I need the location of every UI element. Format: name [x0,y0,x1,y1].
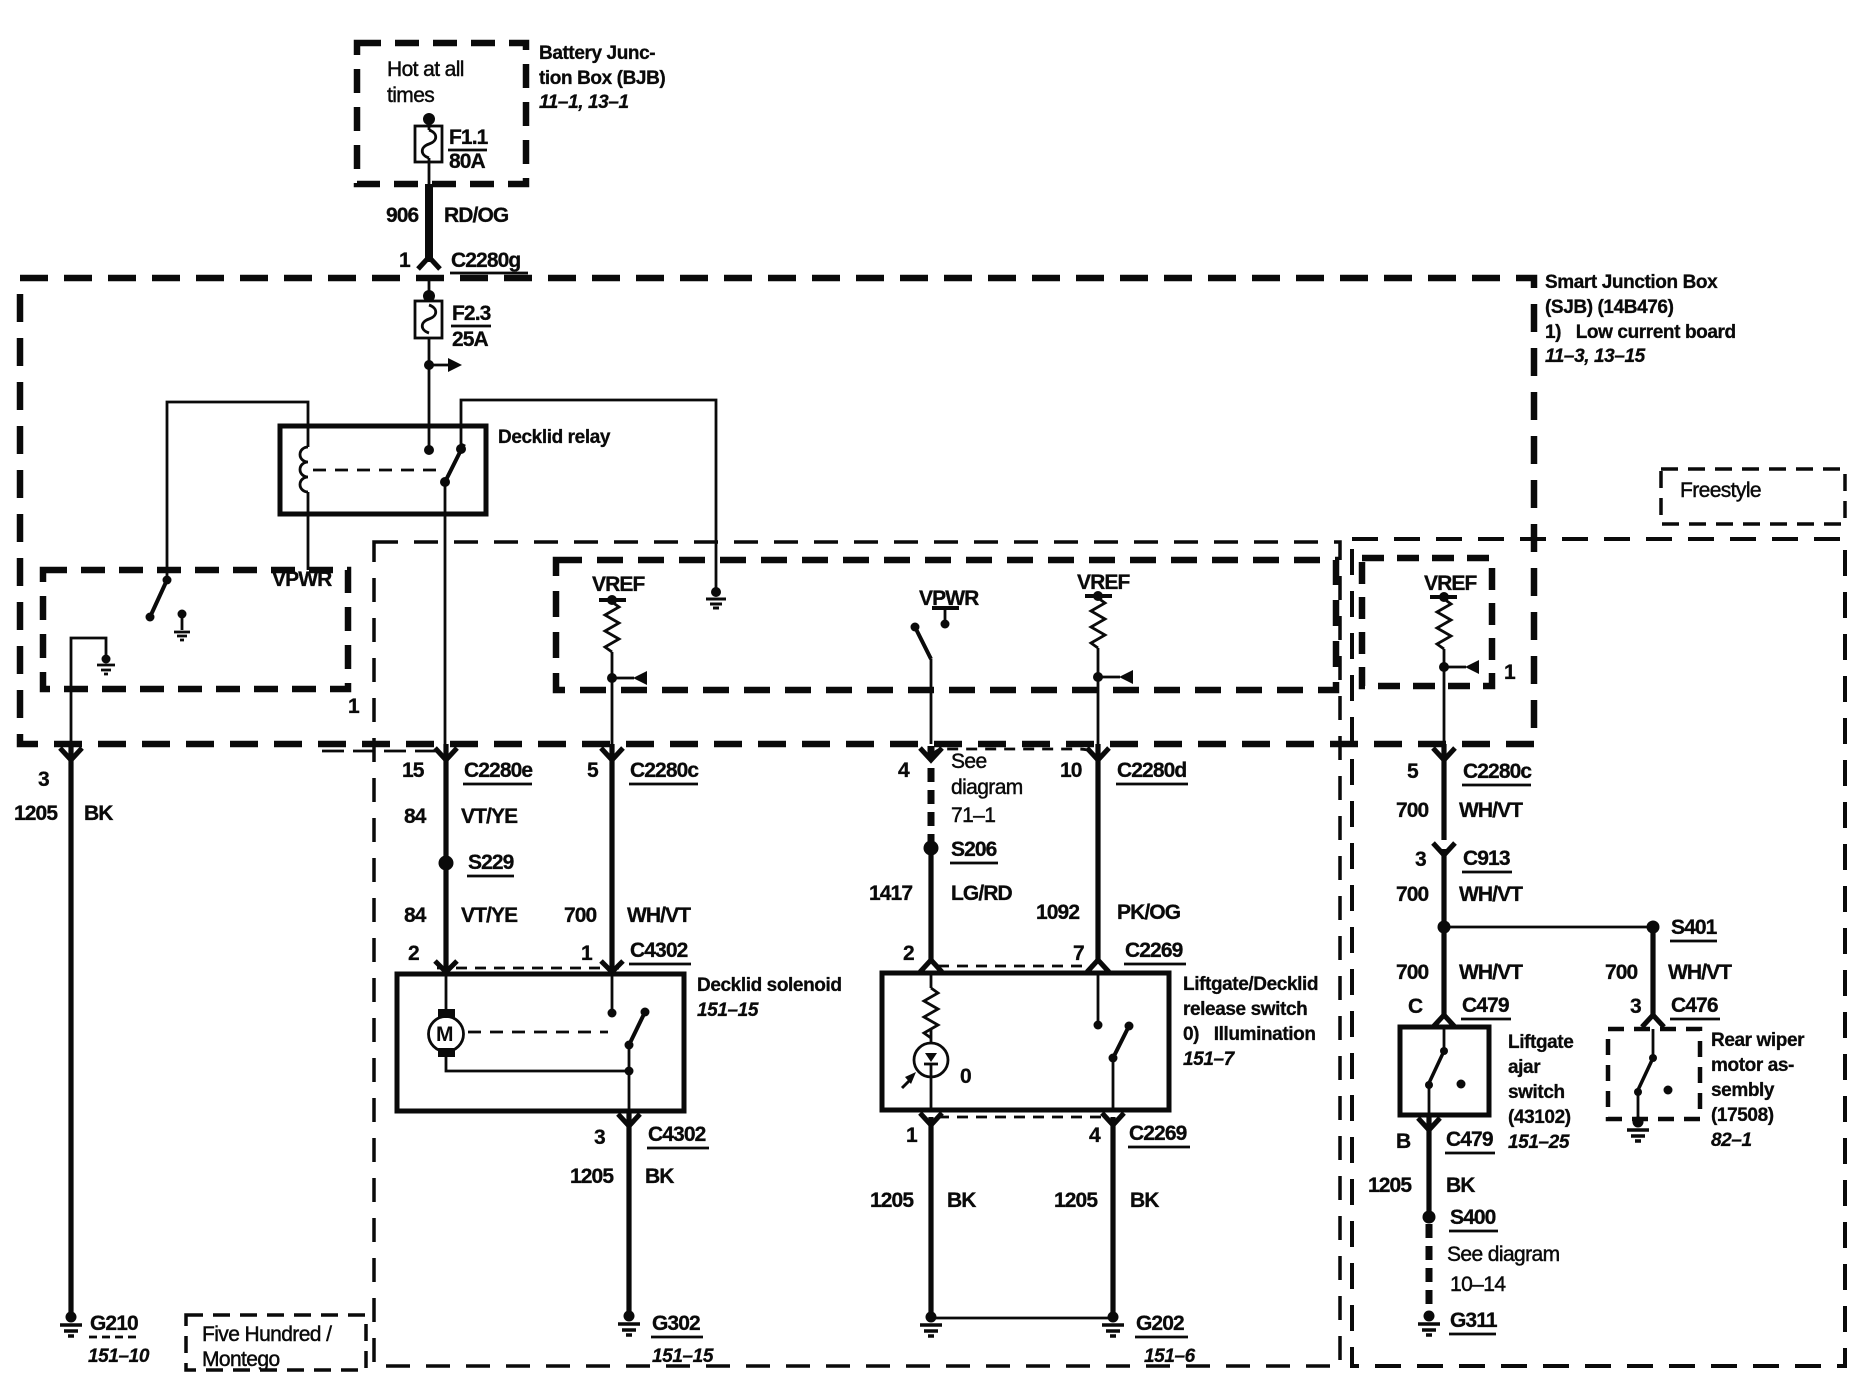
svg-text:700: 700 [1396,961,1429,984]
svg-text:151–7: 151–7 [1183,1049,1236,1070]
VPWR box (dashed enclosure, SJB internal) [43,570,348,689]
svg-text:2: 2 [408,942,419,965]
SJB internal circuits box (dashed enclosure with VREF/VPWR) [556,560,1336,690]
svg-text:5: 5 [1407,760,1419,783]
svg-text:15: 15 [402,759,425,782]
svg-text:F2.3: F2.3 [452,302,491,325]
svg-text:11–3, 13–15: 11–3, 13–15 [1545,346,1646,367]
svg-text:tion Box (BJB): tion Box (BJB) [539,68,665,89]
svg-text:Decklid solenoid: Decklid solenoid [697,975,842,996]
svg-text:25A: 25A [452,328,489,351]
svg-text:release switch: release switch [1183,999,1307,1020]
svg-text:906: 906 [386,204,419,227]
node with tap arrow [607,673,617,683]
freestyle VREF box (dashed enclosure, SJB internal) [1362,558,1492,686]
ground (SJB internal, right of relay) [711,587,721,597]
svg-text:VPWR: VPWR [272,568,332,591]
svg-text:(43102): (43102) [1508,1107,1571,1128]
svg-text:4: 4 [898,759,910,782]
ground G210 [66,1312,77,1323]
svg-text:sembly: sembly [1711,1080,1775,1101]
svg-text:Five Hundred /: Five Hundred / [202,1323,332,1346]
svg-text:C479: C479 [1446,1128,1493,1151]
svg-text:3: 3 [38,768,49,791]
splice S401 [1438,921,1451,934]
wire 700 WH/VT (VREF1 to solenoid, pin 5 C2280c) [601,748,623,760]
svg-text:151–10: 151–10 [88,1346,150,1367]
svg-text:Freestyle: Freestyle [1680,479,1761,502]
wire: relay contact up and over to ground [461,400,716,592]
svg-text:switch: switch [1508,1082,1565,1103]
fuse F1.1 80A [423,113,435,125]
svg-text:diagram: diagram [951,776,1023,799]
svg-text:B: B [1396,1130,1411,1153]
switch inside rear wiper [1652,1029,1655,1056]
svg-text:C2269: C2269 [1129,1122,1187,1145]
dashed link motor to switch [468,1031,608,1034]
rear wiper motor assembly box (dashed) [1608,1029,1700,1119]
splice S400 [1423,1211,1436,1224]
resistor (VREF 3) [1437,599,1451,649]
wires 1205 BK down to G202 [928,1117,933,1313]
svg-text:C4302: C4302 [630,939,688,962]
svg-text:Battery Junc-: Battery Junc- [539,43,655,64]
dashed wire to G311 [1426,1224,1433,1312]
svg-text:RD/OG: RD/OG [444,204,509,227]
svg-text:Liftgate: Liftgate [1508,1032,1573,1053]
smart junction box SJB (dashed enclosure) [20,278,1534,744]
svg-text:S400: S400 [1450,1206,1496,1229]
svg-text:VREF: VREF [592,573,645,596]
svg-text:C4302: C4302 [648,1123,706,1146]
svg-text:F1.1: F1.1 [449,126,489,149]
svg-text:Rear wiper: Rear wiper [1711,1030,1805,1051]
svg-text:82–1: 82–1 [1711,1130,1752,1151]
resistor (VREF 2) [1091,598,1105,648]
svg-text:C2280e: C2280e [464,759,532,782]
svg-text:84: 84 [404,904,427,927]
svg-text:M: M [436,1023,454,1046]
svg-text:See: See [951,750,987,773]
relay switch contact and blade [456,444,466,454]
freestyle label box [1661,469,1845,524]
svg-text:0) Illumination: 0) Illumination [1183,1024,1316,1045]
wire VREF3 down [1443,649,1446,744]
connector C4302 pin 3 [618,1114,640,1126]
svg-text:700: 700 [1605,961,1638,984]
resistor (VREF 1) [605,602,619,652]
svg-text:G210: G210 [90,1312,138,1335]
group box Five Hundred / Montego circuits (thin dashed) [374,542,1340,1366]
wire VPWR switch to release switch (pin 4, S206, 1417 LG/RD) [920,748,942,760]
fuse F2.3 25A [423,290,435,302]
svg-text:1: 1 [348,695,360,718]
svg-text:1205: 1205 [870,1189,914,1212]
wire from F2.3 down to relay [428,338,431,450]
liftgate ajar switch box [1400,1027,1489,1115]
svg-text:VT/YE: VT/YE [461,805,518,828]
svg-text:11–1, 13–1: 11–1, 13–1 [539,92,629,113]
splice S229 [439,856,454,871]
switch in VPWR box [163,576,172,585]
ground G302 [624,1311,635,1322]
svg-text:C2280g: C2280g [451,249,520,272]
decklid relay U1 [280,426,486,514]
svg-text:PK/OG: PK/OG [1117,901,1181,924]
wire 1205 BK to G302 [626,1111,631,1313]
svg-text:1417: 1417 [869,882,912,905]
wire VREF2 to release switch (pin 10 C2280d, 1092 PK/OG) [1087,748,1109,760]
motor M in solenoid [445,974,448,1009]
release switch contacts [1097,973,1100,1022]
svg-text:1205: 1205 [1368,1174,1412,1197]
svg-text:3: 3 [1630,995,1641,1018]
solenoid switch [608,1009,617,1018]
svg-text:C476: C476 [1671,994,1718,1017]
svg-text:0: 0 [960,1065,971,1088]
svg-text:1: 1 [399,249,411,272]
resistor (illumination) [930,973,933,988]
svg-text:7: 7 [1073,942,1084,965]
svg-text:3: 3 [594,1126,605,1149]
svg-text:5: 5 [587,759,599,782]
svg-text:WH/VT: WH/VT [627,904,691,927]
wire 1205 BK (left, pin 3) [60,748,82,760]
ground with L-wire in VPWR box [71,638,106,744]
svg-text:BK: BK [84,802,113,825]
wire solenoid output [628,1071,631,1111]
svg-text:700: 700 [1396,883,1429,906]
wire: coil to VPWR box [307,492,310,570]
battery junction box BJB (dashed enclosure) [357,43,526,184]
svg-text:1092: 1092 [1036,901,1079,924]
relay pin from fuse (terminal dot) [424,445,434,455]
svg-text:700: 700 [564,904,597,927]
svg-text:times: times [387,84,434,107]
svg-text:Liftgate/Decklid: Liftgate/Decklid [1183,974,1318,995]
svg-text:10–14: 10–14 [1450,1273,1506,1296]
svg-text:G311: G311 [1450,1309,1498,1332]
svg-text:1205: 1205 [570,1165,614,1188]
wire S401 to rear wiper (pin 3 C476) [1650,927,1655,1016]
svg-text:1: 1 [1504,661,1516,684]
low current board boundary line [322,750,445,753]
connector C913 pin 3 [1433,843,1455,855]
wire to liftgate ajar switch (pin C C479) [1441,927,1446,1016]
svg-text:4: 4 [1089,1124,1101,1147]
connector C479 pin B [1418,1118,1440,1130]
dashed link coil to switch [313,469,438,472]
five hundred / montego label box [186,1315,366,1370]
svg-text:VREF: VREF [1424,572,1477,595]
svg-text:motor as-: motor as- [1711,1055,1794,1076]
relay coil [300,447,308,492]
svg-text:WH/VT: WH/VT [1459,799,1523,822]
svg-text:Hot at all: Hot at all [387,58,464,81]
svg-text:Smart Junction Box: Smart Junction Box [1545,272,1718,293]
splice S206 [924,841,939,856]
svg-text:700: 700 [1396,799,1429,822]
svg-text:C2269: C2269 [1125,939,1183,962]
svg-text:C2280d: C2280d [1117,759,1186,782]
switch (middle VPWR) [911,623,920,632]
svg-text:S401: S401 [1671,916,1718,939]
wire down to C2280d pin 4 [930,659,933,744]
svg-text:84: 84 [404,805,427,828]
svg-text:1: 1 [906,1124,918,1147]
ground G202 (double) [926,1312,937,1323]
svg-text:Decklid relay: Decklid relay [498,427,611,448]
ground in rear wiper [1637,1092,1640,1120]
node with tap arrow [1093,672,1103,682]
svg-text:LG/RD: LG/RD [951,882,1013,905]
svg-text:WH/VT: WH/VT [1459,883,1523,906]
svg-text:WH/VT: WH/VT [1459,961,1523,984]
svg-text:Montego: Montego [202,1348,280,1371]
node: junction with branch arrow [424,360,434,370]
svg-text:1: 1 [581,942,593,965]
wire VREF1 down to C2280c [611,652,614,744]
svg-text:C: C [1408,995,1423,1018]
illumination lamp 0 [930,1028,933,1043]
liftgate/decklid release switch box [882,973,1169,1110]
svg-text:S206: S206 [951,838,997,861]
svg-text:S229: S229 [468,851,514,874]
wire 906 RD/OG from BJB to SJB [425,184,433,262]
svg-text:1205: 1205 [14,802,58,825]
svg-text:151–25: 151–25 [1508,1132,1570,1153]
freestyle group box (dashed) [1352,539,1845,1366]
svg-text:BK: BK [645,1165,674,1188]
svg-text:80A: 80A [449,150,486,173]
svg-text:VREF: VREF [1077,571,1130,594]
node with tap arrow [1439,662,1449,672]
svg-text:ajar: ajar [1508,1057,1541,1078]
wire: horizontal link to relay coil and VPWR switch [167,402,308,578]
switch ground contact [178,610,187,619]
wire 84 VT/YE (relay to solenoid, pin 15 C2280e) [435,748,457,760]
svg-text:2: 2 [903,942,914,965]
svg-text:VT/YE: VT/YE [461,904,518,927]
wire from C2280g to fuse F2.3 [428,281,431,296]
svg-text:151–6: 151–6 [1144,1346,1196,1367]
svg-text:71–1: 71–1 [951,804,995,827]
svg-text:BK: BK [1446,1174,1475,1197]
svg-text:C479: C479 [1462,994,1509,1017]
svg-text:151–15: 151–15 [652,1346,714,1367]
svg-text:WH/VT: WH/VT [1668,961,1732,984]
svg-text:See diagram: See diagram [1447,1243,1560,1266]
decklid solenoid box [397,974,684,1111]
connector C2269 bottom (pins 1,4) [938,1116,1106,1119]
wire VREF2 down [1097,648,1100,744]
svg-text:C2280c: C2280c [630,759,699,782]
switch inside liftgate ajar [1443,1027,1446,1049]
wire: relay output down [444,482,447,744]
svg-text:BK: BK [947,1189,976,1212]
ground G311 [1424,1311,1435,1322]
svg-text:G202: G202 [1136,1312,1184,1335]
wire 1205 BK to S400 [1426,1115,1431,1216]
svg-text:1205: 1205 [1054,1189,1098,1212]
svg-text:3: 3 [1415,848,1426,871]
connector bracket See diagram 71-1 [933,749,1096,758]
svg-text:G302: G302 [652,1312,700,1335]
svg-text:(17508): (17508) [1711,1105,1774,1126]
wire 700 WH/VT freestyle (pin 5 C2280c) [1433,748,1455,760]
svg-text:10: 10 [1060,759,1082,782]
svg-text:C2280c: C2280c [1463,760,1532,783]
svg-text:1) Low current board: 1) Low current board [1545,322,1736,343]
svg-text:C913: C913 [1463,847,1510,870]
wire lamp down [930,1077,933,1110]
wire motor to switch common [446,1057,629,1071]
svg-text:BK: BK [1130,1189,1159,1212]
svg-text:(SJB) (14B476): (SJB) (14B476) [1545,297,1674,318]
svg-text:151–15: 151–15 [697,1000,759,1021]
